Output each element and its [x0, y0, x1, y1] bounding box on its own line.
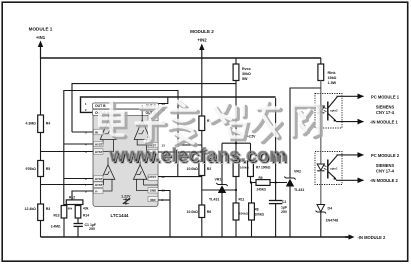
svg-text:R14: R14 [83, 213, 89, 217]
shunt regulator VR2 TL431 [284, 177, 295, 238]
wire v+ bus [81, 97, 276, 112]
svg-text:R3: R3 [46, 207, 51, 211]
svg-text:100kΩ: 100kΩ [239, 212, 249, 216]
wire ref tee [222, 142, 251, 144]
svg-text:opto1: opto1 [330, 167, 338, 171]
wire pin4 [64, 143, 94, 145]
svg-text:+IN1: +IN1 [36, 35, 46, 40]
svg-text:976kΩ: 976kΩ [26, 167, 37, 171]
resistor Rlnk [318, 58, 324, 94]
reference 1.22V [121, 195, 131, 206]
svg-text:R12: R12 [69, 195, 75, 199]
wire opto feed [290, 88, 321, 178]
svg-text:1.22V: 1.22V [121, 195, 131, 199]
svg-text:SIEMENS: SIEMENS [376, 163, 395, 168]
capacitor C1 [74, 224, 83, 238]
svg-text:opto2: opto2 [330, 109, 338, 113]
svg-text:-IN MODULE 2: -IN MODULE 2 [370, 178, 398, 183]
wire rect B top [64, 91, 178, 205]
svg-text:43k: 43k [83, 206, 89, 210]
wire pin5 [41, 151, 94, 153]
svg-text:-IN MODULE 1: -IN MODULE 1 [370, 120, 398, 125]
svg-text:PC MODULE 1: PC MODULE 1 [371, 94, 400, 99]
resistor R11 [233, 203, 239, 237]
svg-text:R11: R11 [239, 198, 245, 202]
svg-text:1µF: 1µF [281, 206, 288, 210]
svg-text:Rvcc: Rvcc [242, 67, 251, 71]
svg-text:HYST: HYST [95, 177, 103, 181]
optocoupler opto1 [315, 94, 364, 129]
svg-text:10.0kΩ: 10.0kΩ [187, 210, 199, 214]
comparator A [93, 112, 116, 152]
svg-text:HYST: HYST [149, 175, 157, 179]
node +IN2 input arrow [199, 44, 204, 59]
svg-text:12.4kΩ: 12.4kΩ [25, 207, 37, 211]
svg-text:CNY 17-4: CNY 17-4 [376, 110, 395, 115]
junction dots [235, 142, 277, 191]
shunt regulator VR1 TL431 [216, 143, 227, 237]
svg-text:REF: REF [150, 198, 156, 202]
svg-text:R9: R9 [259, 176, 263, 180]
resistor R3 [38, 204, 44, 237]
svg-text:R8: R8 [255, 208, 259, 212]
resistor R4 [38, 115, 44, 161]
svg-text:+2.5V: +2.5V [247, 135, 256, 139]
svg-text:SIEMENS: SIEMENS [376, 104, 395, 109]
wire middle chain [201, 58, 203, 116]
watermark [100, 101, 320, 168]
svg-text:R5: R5 [46, 167, 51, 171]
wire pin16 stub [158, 97, 168, 104]
svg-text:96k: 96k [68, 206, 73, 210]
svg-text:TL431: TL431 [294, 188, 304, 192]
svg-text:5W: 5W [242, 77, 248, 81]
wire pin6 [64, 178, 94, 180]
label Rlnk value [328, 71, 337, 85]
svg-text:Rlnk: Rlnk [328, 71, 337, 75]
svg-text:VR1: VR1 [215, 178, 222, 182]
resistor R13 [61, 206, 67, 238]
wire pin10 [158, 191, 170, 238]
svg-text:HYST: HYST [95, 183, 103, 187]
svg-text:+IN2: +IN2 [197, 38, 207, 43]
wire bottom rail [41, 236, 350, 238]
svg-text:100kΩ: 100kΩ [255, 213, 265, 217]
svg-text:VR2: VR2 [294, 170, 301, 174]
svg-text:-IN MODULE 2: -IN MODULE 2 [358, 235, 386, 240]
svg-text:25V: 25V [281, 210, 288, 214]
wire pin9 [158, 199, 170, 201]
svg-text:MODULE 1: MODULE 1 [29, 27, 53, 32]
comparator B [134, 105, 158, 152]
svg-text:GND: GND [150, 188, 156, 192]
svg-text:25V: 25V [89, 227, 96, 231]
resistor R10 [233, 143, 239, 203]
resistor R9 [251, 180, 288, 186]
svg-text:D4: D4 [328, 207, 333, 211]
wire vcc feed [72, 84, 236, 132]
resistor R6 [199, 205, 205, 237]
wire vr1 ref [202, 189, 236, 191]
diode D4 zener [316, 185, 326, 238]
svg-text:TL431: TL431 [209, 198, 219, 202]
pin labels left [85, 102, 106, 193]
svg-text:R4: R4 [46, 122, 51, 126]
svg-text:MODULE 2: MODULE 2 [190, 29, 214, 34]
svg-text:1.5W: 1.5W [328, 81, 337, 85]
wire top rail [41, 57, 322, 59]
wire pin13 link [178, 144, 202, 146]
wire pin3 [72, 131, 93, 133]
svg-text:IN: IN [95, 130, 98, 134]
wire pin11 link [158, 176, 202, 178]
resistor R5 [38, 161, 44, 205]
svg-text:3.4MΩ: 3.4MΩ [51, 224, 61, 228]
svg-text:R6: R6 [207, 210, 212, 214]
resistor R14 [75, 206, 81, 224]
svg-text:C2: C2 [282, 200, 287, 204]
label Rvcc value [242, 67, 251, 81]
wire pin7 [41, 184, 94, 186]
comparator D [133, 158, 158, 191]
capacitor C2 [269, 98, 282, 237]
svg-text:1N4748: 1N4748 [326, 219, 339, 223]
pin labels right [145, 102, 165, 202]
wire pin8 [72, 191, 93, 200]
wire pin12 link [158, 151, 202, 153]
resistor R1 [199, 116, 205, 162]
pin boxes left [94, 129, 104, 194]
svg-text:HYST: HYST [95, 150, 103, 154]
svg-text:www.elecfans.com: www.elecfans.com [109, 145, 287, 167]
node +IN1 input arrow [38, 41, 43, 59]
pin boxes right [148, 115, 158, 202]
comparator C [93, 158, 115, 192]
optocoupler opto2 [315, 128, 364, 185]
svg-text:HYST: HYST [95, 142, 103, 146]
bottom rail output arrow [345, 234, 355, 239]
svg-text:V-: V- [95, 189, 98, 193]
svg-text:R13: R13 [53, 213, 59, 217]
resistor R12 [64, 200, 83, 206]
svg-text:CNY 17-4: CNY 17-4 [376, 169, 395, 174]
svg-text:15kΩ: 15kΩ [328, 76, 337, 80]
svg-text:OUT B: OUT B [95, 104, 106, 108]
resistor R7 [248, 143, 254, 182]
resistor Rvcc [233, 58, 239, 143]
resistor R8 [249, 183, 255, 238]
svg-text:249kΩ: 249kΩ [257, 188, 267, 192]
wire left chain top [40, 58, 42, 115]
svg-text:4.3MΩ: 4.3MΩ [26, 122, 37, 126]
resistor R2 [199, 162, 205, 206]
svg-text:30kΩ: 30kΩ [242, 72, 251, 76]
svg-text:LTC1444: LTC1444 [111, 213, 130, 218]
svg-text:PC MODULE 2: PC MODULE 2 [371, 153, 400, 158]
op-amp U1 LTC1444 body [93, 103, 159, 207]
